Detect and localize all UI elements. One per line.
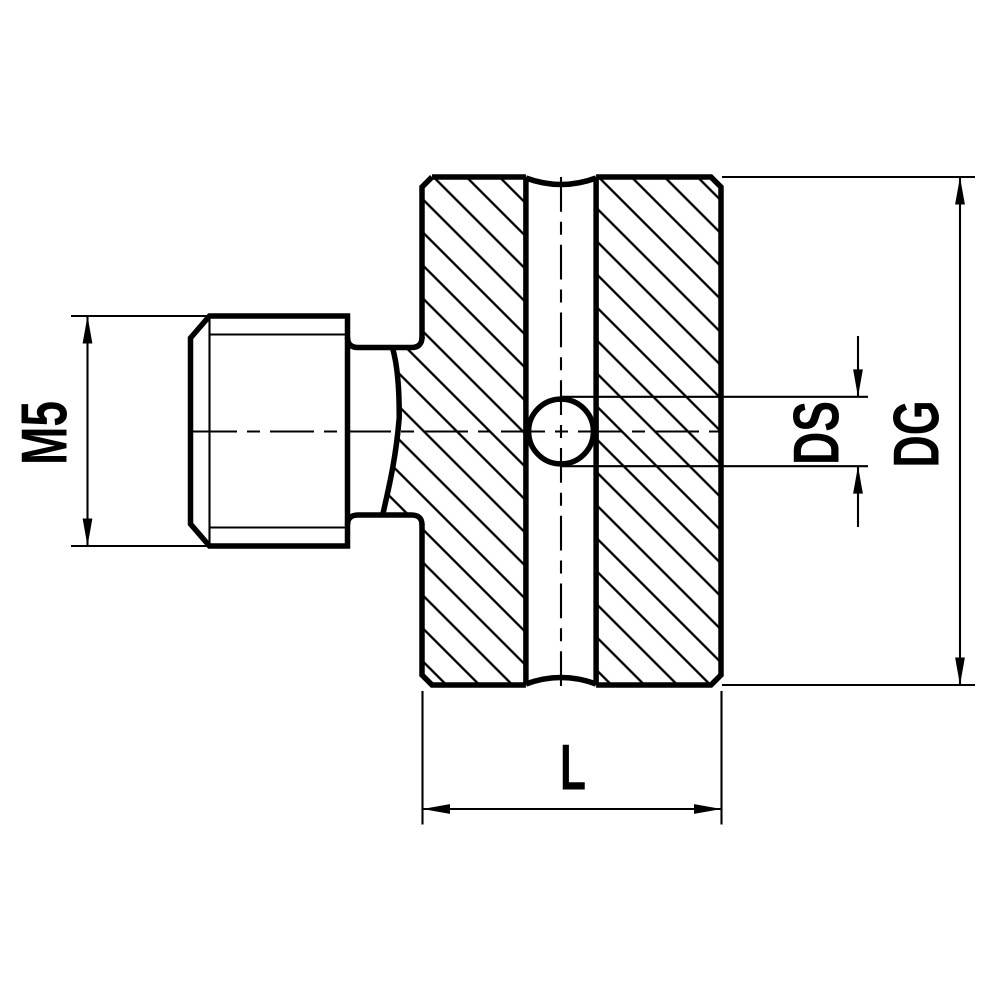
DG extension line bottom (722, 684, 975, 686)
neck bottom edge with fillets (348, 515, 423, 525)
L dimension line (423, 808, 722, 810)
DG arrowhead bottom (955, 658, 965, 686)
hatched section right block (596, 177, 721, 685)
M5 extension line bottom (71, 545, 209, 547)
M5 arrowhead bottom (83, 519, 93, 547)
DS dimension line upper tail (857, 336, 859, 397)
svg-text:DG: DG (879, 400, 952, 467)
cross hole circle DS (529, 399, 594, 464)
bore bottom intersection arc (526, 678, 596, 685)
hatched section left block (383, 177, 526, 685)
L extension line right (720, 691, 722, 825)
M5 arrowhead top (83, 316, 93, 344)
thread minor diameter line top (210, 333, 348, 335)
center line vertical axis (560, 177, 562, 688)
thread chamfer vertical line (208, 316, 210, 546)
DS extension line top (561, 396, 868, 398)
body outline (422, 177, 721, 685)
svg-text:L: L (560, 730, 586, 803)
DG extension line top (722, 176, 975, 178)
bore right wall (593, 177, 599, 685)
neck top edge with fillets (348, 337, 423, 348)
DS arrowhead lower (853, 466, 863, 494)
DG arrowhead top (955, 177, 965, 205)
DG dimension line (959, 177, 961, 685)
M5 extension line top (71, 315, 209, 317)
svg-text:DS: DS (780, 401, 853, 465)
L arrowhead right (694, 804, 722, 814)
DS arrowhead upper (853, 369, 863, 397)
DS extension line bottom (561, 465, 868, 467)
center line horizontal axis (193, 430, 721, 432)
L extension line left (421, 691, 423, 825)
bore left wall (523, 177, 529, 685)
DS dimension line lower tail (857, 466, 859, 527)
svg-text:M5: M5 (8, 401, 81, 465)
M5 dimension line (86, 316, 88, 546)
L arrowhead left (423, 804, 451, 814)
thread runout face curve (383, 348, 399, 514)
thread minor diameter line bottom (210, 526, 348, 528)
bore top intersection arc (526, 178, 596, 185)
stud outline M5 (191, 313, 348, 549)
